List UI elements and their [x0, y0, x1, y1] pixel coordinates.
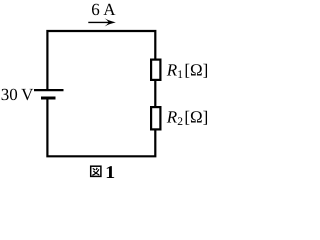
svg-text:1: 1	[105, 162, 115, 182]
svg-text:R2 [Ω]: R2 [Ω]	[166, 108, 209, 129]
svg-text:30 V: 30 V	[1, 85, 34, 104]
svg-text:6 A: 6 A	[91, 0, 116, 19]
svg-text:R1 [Ω]: R1 [Ω]	[166, 60, 209, 81]
